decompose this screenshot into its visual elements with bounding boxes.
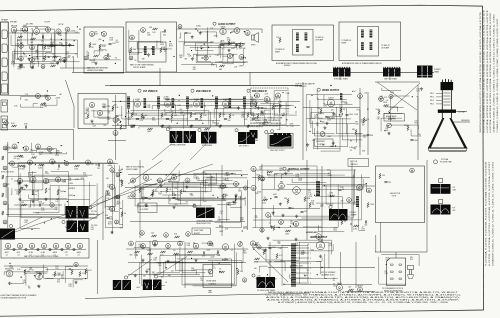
junction sync-left 3: [64, 160, 65, 161]
wire net heater-low 5: [11, 282, 24, 285]
junction front-low 1: [23, 53, 24, 54]
tube V63: [158, 178, 163, 183]
svg-text:T202: T202: [242, 114, 246, 116]
badge vert out wf: [329, 205, 332, 208]
wire mid drop 262: [261, 164, 263, 232]
wire net horiz-out 8: [283, 262, 299, 284]
svg-text:56: 56: [58, 274, 60, 276]
alternate IF inset box C: [272, 25, 334, 61]
tube V33 IF amp: [164, 99, 170, 107]
ground front-end 1: [56, 61, 59, 64]
junction crt-drive 5: [384, 130, 385, 131]
wire net video-amp 13: [325, 101, 342, 116]
svg-text:.22: .22: [170, 109, 172, 111]
wire net video-amp 8: [306, 94, 352, 151]
wire IF drop x160: [159, 68, 161, 86]
wire net vert-col 6: [115, 165, 119, 212]
svg-text:C299: C299: [240, 219, 244, 221]
framed photo box: [268, 134, 293, 149]
tube V88: [166, 244, 171, 249]
wire net sync-left 20: [73, 182, 89, 209]
oscillator nested box: [84, 99, 108, 124]
wire front-end top bus: [9, 32, 80, 34]
CRT funnel left: [428, 118, 444, 148]
IF coil T4: [305, 33, 308, 41]
wire net conv 4: [20, 104, 41, 107]
svg-text:6U8: 6U8: [23, 25, 26, 27]
svg-text:P-P: P-P: [453, 187, 456, 189]
svg-text:220: 220: [341, 201, 344, 203]
wire video section divider: [302, 82, 304, 160]
svg-text:2.2M: 2.2M: [154, 258, 158, 260]
wire net video-low 6: [318, 114, 324, 149]
wire damper link: [345, 291, 375, 293]
wire net sync-left 23: [28, 172, 36, 177]
wire net audio 6: [181, 65, 217, 68]
wire x322 drop: [321, 166, 323, 243]
ground g6: [260, 111, 263, 114]
svg-text:L205: L205: [225, 175, 229, 177]
ground g5: [90, 120, 93, 123]
svg-text:3-4: 3-4: [18, 254, 20, 256]
badge vert 1: [89, 206, 92, 209]
junction sound-det 4: [286, 119, 287, 120]
svg-text:T30: T30: [28, 288, 31, 290]
svg-text:C294: C294: [323, 105, 327, 107]
svg-text:56: 56: [264, 197, 266, 199]
svg-text:56: 56: [344, 221, 346, 223]
svg-text:.22: .22: [44, 104, 46, 106]
capacitor C35: [288, 207, 291, 209]
svg-text:R33: R33: [154, 260, 157, 262]
wire net if-strip 2: [152, 105, 291, 109]
svg-text:T289: T289: [130, 127, 134, 129]
svg-text:.01: .01: [282, 113, 284, 115]
svg-text:P-P 75V: P-P 75V: [91, 211, 97, 213]
wire x427 drop: [426, 160, 428, 252]
wire net vert-out 21: [262, 179, 364, 190]
wire net if-strip 11: [162, 112, 210, 128]
badge vert 2: [62, 220, 65, 223]
resistor R46: [363, 118, 365, 123]
wire net sync-left 8: [8, 187, 58, 209]
capacitor C27: [58, 164, 60, 167]
svg-text:L22: L22: [356, 189, 359, 191]
svg-text:.22: .22: [361, 227, 363, 229]
junction if-strip 3: [202, 123, 203, 124]
resistor R61: [139, 188, 141, 193]
ground sound-det 1: [257, 106, 260, 109]
svg-text:L265: L265: [262, 124, 266, 126]
wire net video-amp 14: [324, 95, 353, 105]
svg-text:L22: L22: [259, 169, 262, 171]
wire vert bus 208: [252, 208, 320, 210]
svg-text:.01: .01: [57, 169, 59, 171]
ground sync-left 4: [20, 186, 23, 189]
wire x97 drop: [97, 240, 99, 294]
svg-text:100: 100: [66, 52, 69, 54]
svg-text:56: 56: [343, 109, 345, 111]
junction video-amp 5: [311, 95, 312, 96]
junction sync-mid 7: [205, 173, 206, 174]
vert lin label box: [348, 159, 369, 167]
svg-text:V-2364-11, V-2364-12, V-2365-1: V-2364-11, V-2364-12, V-2365-11, V-2365-…: [497, 17, 499, 132]
wire net vert-col 1: [108, 166, 112, 168]
diagonal lead horiz: [253, 248, 288, 282]
svg-text:.22: .22: [142, 189, 144, 191]
svg-text:.01: .01: [386, 100, 388, 102]
svg-text:.22: .22: [145, 204, 147, 206]
tube V10: [30, 58, 35, 63]
ground g17: [8, 282, 11, 285]
capacitor CX2: [338, 189, 341, 191]
ground audio 3: [199, 31, 202, 34]
wire net if-strip 18: [178, 99, 179, 102]
tube V41: [358, 94, 363, 99]
wire net vert-out 22: [277, 188, 278, 191]
tube V58: [116, 195, 120, 199]
wire x368: [367, 92, 369, 155]
wire anode lead: [453, 121, 470, 123]
svg-text:.047: .047: [20, 42, 23, 44]
wire out drop 270: [269, 242, 271, 286]
tube VL: [41, 65, 45, 69]
svg-text:.047: .047: [414, 121, 417, 123]
junction video-low 3: [320, 121, 321, 122]
svg-text:C74: C74: [308, 192, 311, 194]
junction vert-out 4: [314, 195, 315, 196]
leader line curve2: [190, 144, 206, 160]
junction dot IF: [191, 125, 192, 126]
tube V92: [222, 244, 228, 250]
wire net horiz-out 5: [274, 257, 322, 261]
svg-text:T177: T177: [212, 268, 216, 270]
ground video-low 1: [332, 141, 335, 144]
wire net sync-left 17: [6, 176, 70, 198]
capacitor C7: [220, 44, 223, 46]
CRT base pins: [443, 79, 452, 82]
svg-text:T213: T213: [414, 123, 418, 125]
svg-text:T63: T63: [278, 243, 281, 245]
resistor RX3: [309, 203, 311, 208]
junction vert-out 1: [324, 185, 325, 186]
svg-text:.0047: .0047: [147, 131, 151, 133]
svg-text:.22: .22: [287, 169, 289, 171]
svg-text:680: 680: [59, 43, 62, 45]
capacitor C18: [224, 118, 227, 120]
IF transformer bar T16: [243, 97, 246, 109]
tube V19: [228, 54, 233, 59]
resistor R54: [19, 188, 21, 193]
resistor R52: [39, 164, 44, 166]
tube V98 damper: [337, 282, 343, 291]
resistor R2: [31, 38, 36, 40]
junction video-low 2: [309, 131, 310, 132]
svg-text:HORIZ OUTPUT: HORIZ OUTPUT: [310, 237, 328, 239]
svg-text:L170: L170: [158, 265, 162, 267]
wire net audio 10: [196, 27, 207, 55]
junction if-strip 8: [128, 111, 129, 112]
svg-text:.047: .047: [144, 115, 147, 117]
ground front-end 2: [68, 43, 71, 46]
svg-text:R15: R15: [410, 259, 413, 261]
ground front-low 1: [27, 57, 30, 60]
svg-text:R112: R112: [168, 181, 172, 183]
tube V48: [86, 160, 91, 165]
wire net front-end 11: [11, 35, 74, 46]
ground horiz-out 3: [255, 243, 258, 246]
video peak photo: [196, 208, 215, 219]
tube V60: [115, 220, 119, 224]
svg-text:.22: .22: [31, 270, 33, 272]
svg-text:R276: R276: [211, 65, 215, 67]
svg-text:.01: .01: [275, 96, 277, 98]
resistor R5: [53, 56, 58, 58]
wire sync hbus: [125, 187, 250, 189]
svg-text:2.2M: 2.2M: [273, 278, 277, 280]
svg-text:.0047: .0047: [223, 194, 227, 196]
tube V3 osc: [34, 27, 40, 35]
junction audio-low 3: [243, 57, 244, 58]
IF interstage coil L10: [144, 98, 147, 108]
svg-text:+265V: +265V: [68, 195, 74, 197]
resistor R50: [407, 126, 409, 131]
wire top inner bus: [72, 71, 434, 73]
heater coupling cap at 38: [37, 248, 39, 250]
heater coupling cap at 50: [49, 248, 51, 250]
svg-text:T252: T252: [107, 186, 111, 188]
wire net horiz-out 6: [325, 254, 338, 279]
waveform badge sq 2: [439, 200, 443, 204]
junction if-strip 9: [212, 95, 213, 96]
wire x103 drop: [102, 164, 104, 240]
tube V13: [130, 35, 135, 40]
wire net uhf 1: [128, 50, 130, 56]
tube V52: [43, 178, 48, 183]
junction osc-area 1: [120, 122, 121, 123]
wire net front-end 8: [30, 61, 80, 68]
svg-text:L33: L33: [55, 209, 58, 211]
leader line agc 1: [128, 259, 153, 277]
wire front-end drop x32: [31, 33, 33, 62]
junction dot 2: [195, 28, 196, 29]
svg-text:VERT LIN: VERT LIN: [350, 161, 358, 163]
ground g13: [144, 204, 147, 207]
svg-text:6CB6: 6CB6: [41, 252, 45, 254]
tube V24: [97, 110, 102, 115]
wire mid drop 140: [139, 160, 141, 238]
svg-text:1500: 1500: [255, 193, 259, 195]
junction left-lower 3: [18, 142, 19, 143]
junction sync-left 2: [44, 222, 45, 223]
wire x360: [359, 88, 361, 155]
svg-text:C230: C230: [301, 252, 305, 254]
svg-text:AUDIO OUTPUT: AUDIO OUTPUT: [218, 23, 236, 26]
wire net if-strip 20: [166, 99, 264, 101]
resistor R42: [255, 104, 257, 109]
svg-text:680: 680: [278, 241, 281, 243]
junction sync-left 6: [31, 229, 32, 230]
junction sync-mid 10: [241, 175, 242, 176]
ground video-amp 1: [306, 143, 309, 146]
svg-text:2.2M: 2.2M: [219, 61, 223, 63]
capacitor C12: [136, 118, 139, 120]
wire net sync-mid-r 5: [217, 197, 235, 204]
wire net if-strip 3: [126, 102, 204, 113]
heater tube 6AU8 #5: [53, 243, 58, 248]
HV waveform photo 1: [431, 184, 451, 194]
tube V46: [50, 159, 55, 164]
resistor R18: [112, 106, 114, 111]
waveform badge sq 1: [439, 179, 443, 183]
capacitor C10: [115, 115, 118, 117]
tuner mid compartment: [1, 100, 8, 112]
junction agc 6: [222, 259, 223, 260]
junction sync-mid 5: [213, 195, 214, 196]
badge corner: [9, 224, 12, 227]
tube V36 IF amp: [250, 99, 256, 107]
wire net sync-left 19: [59, 183, 97, 218]
svg-text:1500: 1500: [118, 170, 122, 172]
wire net vert-out 14: [255, 170, 356, 228]
wire net agc 18: [182, 258, 236, 285]
wire net horiz-out 3: [259, 266, 267, 272]
resistor R17: [87, 114, 89, 119]
capacitor C40: [268, 247, 271, 249]
svg-text:1500: 1500: [349, 114, 353, 116]
junction insetA 2: [115, 63, 116, 64]
tube V39: [276, 93, 281, 98]
tube VG: [279, 220, 284, 225]
IF coil T3: [296, 33, 299, 41]
resistor R53: [75, 165, 80, 167]
svg-text:L16: L16: [44, 106, 47, 108]
resistor R10: [130, 48, 132, 53]
vert waveform photo 1b: [78, 206, 89, 219]
wire net sync-left 16: [20, 173, 40, 228]
wire net audio-low 1: [222, 54, 233, 64]
heater tube 6CB6 #4: [41, 243, 46, 248]
resistor RX7: [51, 65, 56, 67]
junction left-lower 1: [61, 145, 62, 146]
capacitor C8: [306, 46, 309, 48]
badge 1: [213, 22, 216, 25]
svg-text:2.2M: 2.2M: [16, 59, 20, 61]
tube V95 horiz output: [316, 240, 324, 250]
wire net sync-mid 20: [135, 187, 212, 206]
vert coil: [356, 196, 359, 207]
svg-text:C9: C9: [66, 53, 68, 55]
svg-text:T240: T240: [255, 103, 259, 105]
power transformer blob T11: [383, 67, 401, 77]
IF transformer bar T13: [157, 97, 160, 109]
svg-text:L6: L6: [52, 164, 54, 166]
wire net uhf 3: [129, 30, 139, 54]
svg-text:2.2M: 2.2M: [295, 174, 299, 176]
resistor R82: [148, 253, 153, 255]
wire net vert-out 11: [359, 201, 365, 230]
resistor RX1: [273, 226, 275, 231]
svg-text:.047: .047: [56, 199, 59, 201]
wire net uhf 4: [156, 41, 158, 48]
svg-text:220: 220: [242, 44, 245, 46]
wire net horiz-out 1: [273, 240, 332, 254]
svg-text:.0047: .0047: [31, 64, 35, 66]
svg-text:300 OHM: 300 OHM: [26, 24, 33, 26]
svg-text:+130V: +130V: [55, 98, 61, 100]
tuner coil slug 3: [2, 58, 8, 67]
wire lower heater: [4, 265, 88, 267]
wire connector feed: [395, 252, 397, 258]
resistor R29: [190, 113, 192, 118]
wire audio bus: [177, 28, 251, 30]
svg-text:2.2M: 2.2M: [15, 43, 19, 45]
wire net plug-area 1: [381, 255, 419, 266]
svg-text:2.2M: 2.2M: [75, 179, 79, 181]
badge horiz wf: [252, 274, 255, 277]
svg-text:CHASSIS V-2360-11, V-2360-12,: CHASSIS V-2360-11, V-2360-12, V-2360-13,…: [493, 13, 496, 132]
wire net sync-mid 14: [178, 182, 226, 200]
junction horiz-out 1: [267, 274, 268, 275]
capacitor C3: [108, 43, 111, 45]
junction front-low 2: [43, 58, 44, 59]
tube V26: [12, 144, 17, 149]
fine tuning inset box: [84, 27, 124, 73]
wire net sync-left 4: [14, 164, 42, 190]
wire net osc-area 2: [109, 110, 114, 112]
svg-text:1500: 1500: [24, 220, 28, 222]
wire net video-amp 12: [321, 105, 340, 151]
svg-text:220: 220: [37, 286, 40, 288]
resistor R55: [32, 190, 34, 195]
wire net agc 5: [160, 255, 215, 273]
svg-text:.047: .047: [204, 201, 207, 203]
svg-text:C251: C251: [20, 157, 24, 159]
junction agc 2: [240, 241, 241, 242]
svg-text:56: 56: [69, 268, 71, 270]
svg-text:3-4: 3-4: [66, 254, 68, 256]
tube V86: [141, 244, 146, 249]
wire net sync-left 5: [32, 171, 37, 195]
wire front-end drop x66: [65, 33, 67, 62]
tube V94: [242, 278, 246, 282]
svg-text:100: 100: [106, 198, 109, 200]
tuner lower compartment: [1, 116, 8, 130]
svg-text:T45: T45: [162, 49, 165, 51]
wire net sync-mid 18: [183, 181, 208, 191]
svg-text:2.2M: 2.2M: [257, 275, 261, 277]
ground g19: [74, 281, 77, 284]
wire net heater-low 3: [44, 264, 54, 278]
wire net crt-drive 8: [384, 107, 397, 112]
wire audio lower: [215, 61, 248, 63]
svg-text:100: 100: [254, 268, 257, 270]
svg-text:T245: T245: [158, 193, 162, 195]
svg-text:100: 100: [29, 267, 32, 269]
interlock connector body: [387, 258, 406, 286]
svg-text:T185: T185: [179, 57, 183, 59]
svg-text:C123: C123: [327, 120, 331, 122]
wire net sync-mid 13: [143, 185, 157, 202]
junction vert-col 4: [121, 169, 122, 170]
junction sound-det 3: [282, 115, 283, 116]
svg-text:220: 220: [151, 233, 154, 235]
wire net front-end 12: [38, 29, 54, 59]
svg-text:56: 56: [24, 54, 26, 56]
svg-text:L115: L115: [209, 245, 212, 247]
svg-text:3-4: 3-4: [6, 254, 8, 256]
wire net video-amp 9: [356, 110, 360, 147]
